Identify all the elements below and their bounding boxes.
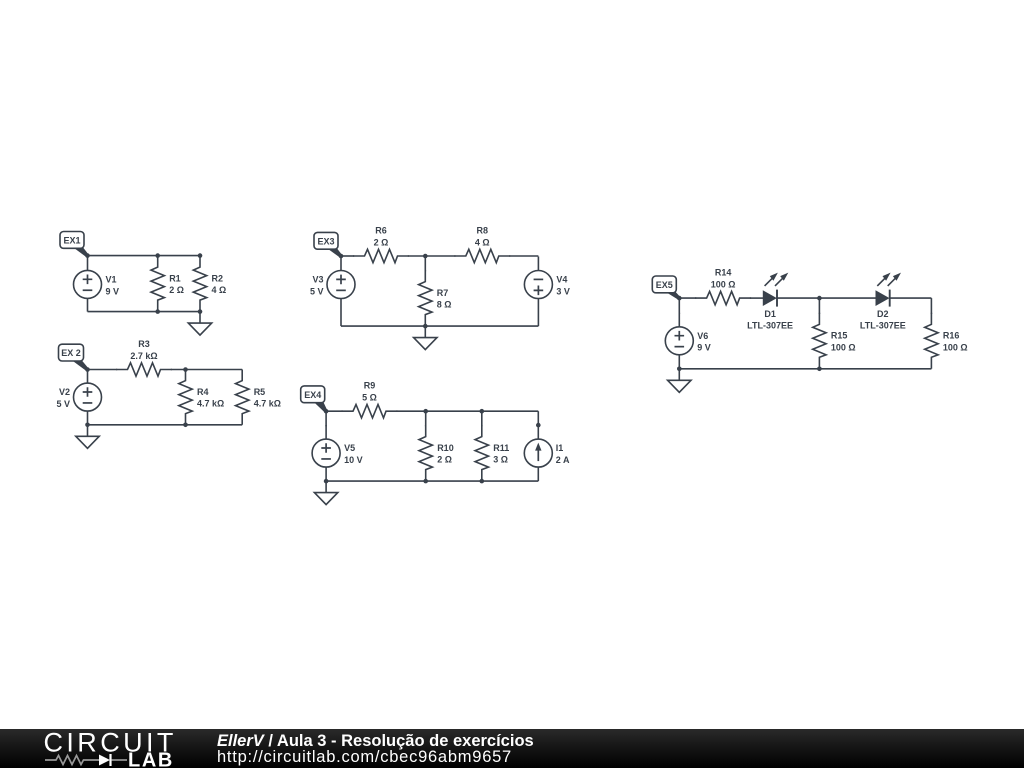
label R2 4 Ω bbox=[212, 273, 227, 295]
junction EX3 top R7 bbox=[423, 254, 428, 259]
resistor R1 bbox=[151, 256, 164, 312]
svg-text:R16: R16 bbox=[943, 331, 960, 341]
resistor R3 bbox=[116, 363, 172, 376]
junction EX3 bottom R7 bbox=[423, 324, 428, 329]
voltage source V4 bbox=[524, 257, 552, 313]
junction EX1 top R2 bbox=[198, 253, 203, 258]
label V4 3 V bbox=[556, 275, 570, 297]
wire EX3 node to R6 bbox=[341, 255, 354, 257]
ground EX5 bbox=[668, 369, 691, 393]
svg-text:4.7 kΩ: 4.7 kΩ bbox=[197, 399, 224, 409]
wire EX2 R3 to R5 bbox=[171, 369, 242, 371]
wire EX1 bottom rail bbox=[88, 311, 201, 313]
svg-text:R15: R15 bbox=[831, 331, 848, 341]
svg-text:EX4: EX4 bbox=[304, 390, 321, 400]
label R11 3 Ω bbox=[493, 443, 509, 465]
svg-text:D1: D1 bbox=[764, 309, 776, 319]
label V2 5 V bbox=[56, 387, 70, 409]
wire EX4 node to R9 bbox=[326, 410, 343, 412]
LED D1 bbox=[763, 273, 788, 307]
svg-text:R10: R10 bbox=[437, 443, 454, 453]
wire EX1 top rail bbox=[88, 255, 201, 257]
node EX 2 bbox=[85, 367, 90, 372]
svg-text:V3: V3 bbox=[312, 275, 323, 285]
label V3 5 V bbox=[310, 275, 324, 297]
label V5 10 V bbox=[344, 443, 363, 465]
label R14 100 Ω bbox=[711, 268, 736, 290]
svg-text:2 A: 2 A bbox=[556, 455, 570, 465]
svg-text:R14: R14 bbox=[715, 268, 732, 278]
flag EX4 bbox=[301, 386, 327, 413]
svg-text:4 Ω: 4 Ω bbox=[475, 237, 490, 247]
resistor R8 bbox=[454, 249, 510, 262]
LED D2 bbox=[876, 273, 901, 307]
label R3 2.7 kΩ bbox=[130, 339, 157, 361]
junction EX4 bottom R10 bbox=[423, 479, 428, 484]
junction EX2 bottom V2 bbox=[85, 423, 90, 428]
wire EX5 bottom rail bbox=[679, 368, 931, 370]
wire EX3 bottom rail bbox=[341, 325, 538, 327]
svg-text:2 Ω: 2 Ω bbox=[169, 285, 184, 295]
flag EX3 bbox=[314, 232, 342, 257]
svg-text:EX 2: EX 2 bbox=[61, 348, 81, 358]
junction EX4 top R10 bbox=[423, 409, 428, 414]
svg-text:5 V: 5 V bbox=[310, 286, 324, 296]
svg-text:LTL-307EE: LTL-307EE bbox=[747, 320, 793, 330]
wire EX4 bottom rail bbox=[326, 480, 538, 482]
flag EX1 bbox=[60, 232, 88, 257]
current source I1 bbox=[524, 425, 552, 481]
resistor R2 bbox=[193, 256, 206, 312]
voltage source V1 bbox=[74, 256, 102, 312]
resistor R6 bbox=[353, 249, 409, 262]
junction EX1 top R1 bbox=[155, 253, 160, 258]
svg-text:3 V: 3 V bbox=[556, 286, 570, 296]
wire EX5 node to R14 bbox=[679, 297, 696, 299]
ground EX1 bbox=[188, 312, 211, 336]
svg-text:R4: R4 bbox=[197, 387, 209, 397]
resistor R4 bbox=[179, 370, 192, 425]
resistor R11 bbox=[475, 425, 488, 481]
label D2 LTL-307EE bbox=[860, 309, 906, 331]
junction EX4 I1 node bbox=[536, 423, 541, 428]
svg-text:LTL-307EE: LTL-307EE bbox=[860, 320, 906, 330]
svg-text:V2: V2 bbox=[59, 387, 70, 397]
label R16 100 Ω bbox=[943, 331, 968, 353]
footer title text bbox=[217, 733, 917, 765]
logo diode bbox=[99, 755, 110, 766]
wire EX3 R6 to R8 bbox=[408, 255, 456, 257]
svg-text:V4: V4 bbox=[556, 275, 567, 285]
label R4 4.7 kΩ bbox=[197, 387, 224, 409]
svg-text:R2: R2 bbox=[212, 273, 224, 283]
junction EX2 top R4 bbox=[183, 367, 188, 372]
node EX5 bbox=[677, 296, 682, 301]
label R1 2 Ω bbox=[169, 273, 184, 295]
svg-text:R8: R8 bbox=[477, 226, 489, 236]
svg-text:9 V: 9 V bbox=[106, 286, 120, 296]
ground EX4 bbox=[314, 481, 337, 505]
svg-text:100 Ω: 100 Ω bbox=[711, 279, 736, 289]
junction EX5 top R15 bbox=[817, 296, 822, 301]
ground EX3 bbox=[414, 326, 437, 350]
wire EX5 R14 to D1 bbox=[750, 297, 764, 299]
svg-text:LAB: LAB bbox=[128, 750, 174, 768]
label I1 2 A bbox=[556, 443, 570, 465]
voltage source V3 bbox=[327, 257, 355, 313]
label R6 2 Ω bbox=[374, 226, 389, 248]
wire EX5 R15 to D2 bbox=[819, 297, 876, 299]
label R7 8 Ω bbox=[437, 288, 452, 310]
junction EX1 bottom R2 bbox=[198, 309, 203, 314]
svg-text:5 Ω: 5 Ω bbox=[362, 393, 377, 403]
label R8 4 Ω bbox=[475, 226, 490, 248]
CircuitLab logo bbox=[0, 729, 200, 768]
wire EX5 R16 stub bbox=[930, 298, 932, 314]
svg-text:V5: V5 bbox=[344, 443, 355, 453]
resistor R7 bbox=[419, 270, 432, 326]
label R10 2 Ω bbox=[437, 443, 454, 465]
svg-text:8 Ω: 8 Ω bbox=[437, 300, 452, 310]
svg-text:2 Ω: 2 Ω bbox=[437, 455, 452, 465]
resistor R16 bbox=[925, 313, 938, 369]
svg-text:2.7 kΩ: 2.7 kΩ bbox=[130, 351, 157, 361]
svg-text:R9: R9 bbox=[364, 381, 376, 391]
resistor R9 bbox=[342, 405, 398, 418]
wire EX4 V5 stub bbox=[325, 411, 327, 426]
wire EX3 R8 to V4 bbox=[509, 255, 538, 257]
svg-text:4 Ω: 4 Ω bbox=[212, 285, 227, 295]
wire EX5 D2 to R16 bbox=[890, 297, 931, 299]
svg-text:V6: V6 bbox=[697, 331, 708, 341]
junction EX5 bottom V6 bbox=[677, 367, 682, 372]
junction EX5 bottom R15 bbox=[817, 367, 822, 372]
wire EX4 R9 to I1 bbox=[396, 410, 538, 412]
flag EX5 bbox=[652, 276, 680, 299]
junction EX4 top R11 bbox=[480, 409, 485, 414]
resistor R15 bbox=[813, 313, 826, 369]
svg-text:5 V: 5 V bbox=[56, 399, 70, 409]
svg-text:4.7 kΩ: 4.7 kΩ bbox=[254, 399, 281, 409]
svg-text:3 Ω: 3 Ω bbox=[493, 455, 508, 465]
wire EX5 R15 stub bbox=[818, 298, 820, 314]
label V1 9 V bbox=[106, 275, 120, 297]
resistor R5 bbox=[236, 370, 249, 425]
resistor R10 bbox=[419, 425, 432, 481]
svg-text:R5: R5 bbox=[254, 387, 266, 397]
voltage source V6 bbox=[665, 313, 693, 369]
wire EX3 R7 stub bbox=[424, 256, 426, 271]
wire EX4 I1 stub bbox=[537, 411, 539, 426]
svg-text:2 Ω: 2 Ω bbox=[374, 237, 389, 247]
svg-text:9 V: 9 V bbox=[697, 343, 711, 353]
wire EX4 R11 stub bbox=[481, 411, 483, 426]
label R15 100 Ω bbox=[831, 331, 856, 353]
resistor R14 bbox=[695, 291, 751, 304]
node EX3 bbox=[339, 254, 344, 259]
wire EX2 node to R3 bbox=[88, 369, 118, 371]
svg-text:V1: V1 bbox=[106, 275, 117, 285]
wire EX5 D1 to R15 bbox=[778, 297, 820, 299]
svg-text:R7: R7 bbox=[437, 288, 449, 298]
svg-text:EX1: EX1 bbox=[63, 236, 80, 246]
svg-text:R11: R11 bbox=[493, 443, 509, 453]
junction EX1 bottom R1 bbox=[155, 309, 160, 314]
wire EX2 bottom rail bbox=[88, 424, 243, 426]
svg-text:EX5: EX5 bbox=[656, 280, 673, 290]
svg-text:100 Ω: 100 Ω bbox=[831, 342, 856, 352]
svg-text:100 Ω: 100 Ω bbox=[943, 342, 968, 352]
junction EX4 bottom R11 bbox=[480, 479, 485, 484]
label R5 4.7 kΩ bbox=[254, 387, 281, 409]
wire EX3 V3 to bottom bbox=[340, 313, 342, 327]
svg-text:R3: R3 bbox=[138, 339, 150, 349]
junction EX4 bottom V5 bbox=[324, 479, 329, 484]
svg-text:I1: I1 bbox=[556, 443, 564, 453]
wire EX3 V4 to bottom bbox=[537, 313, 539, 327]
voltage source V5 bbox=[312, 425, 340, 481]
label D1 LTL-307EE bbox=[747, 309, 793, 331]
wire EX5 V6 stub bbox=[678, 298, 680, 314]
label R9 5 Ω bbox=[362, 381, 377, 403]
svg-text:D2: D2 bbox=[877, 309, 889, 319]
logo schematic squiggle bbox=[45, 756, 99, 765]
svg-text:10 V: 10 V bbox=[344, 455, 363, 465]
svg-text:EX3: EX3 bbox=[317, 236, 334, 246]
junction EX2 bottom R4 bbox=[183, 423, 188, 428]
node EX1 bbox=[85, 253, 90, 258]
voltage source V2 bbox=[74, 370, 102, 425]
svg-text:R6: R6 bbox=[375, 226, 387, 236]
footer bar bbox=[0, 729, 1024, 768]
node EX4 bbox=[324, 409, 329, 414]
label V6 9 V bbox=[697, 331, 711, 353]
svg-text:R1: R1 bbox=[169, 273, 181, 283]
flag EX2 bbox=[59, 344, 89, 371]
ground EX2 bbox=[76, 425, 99, 449]
wire EX4 R10 stub bbox=[425, 411, 427, 426]
